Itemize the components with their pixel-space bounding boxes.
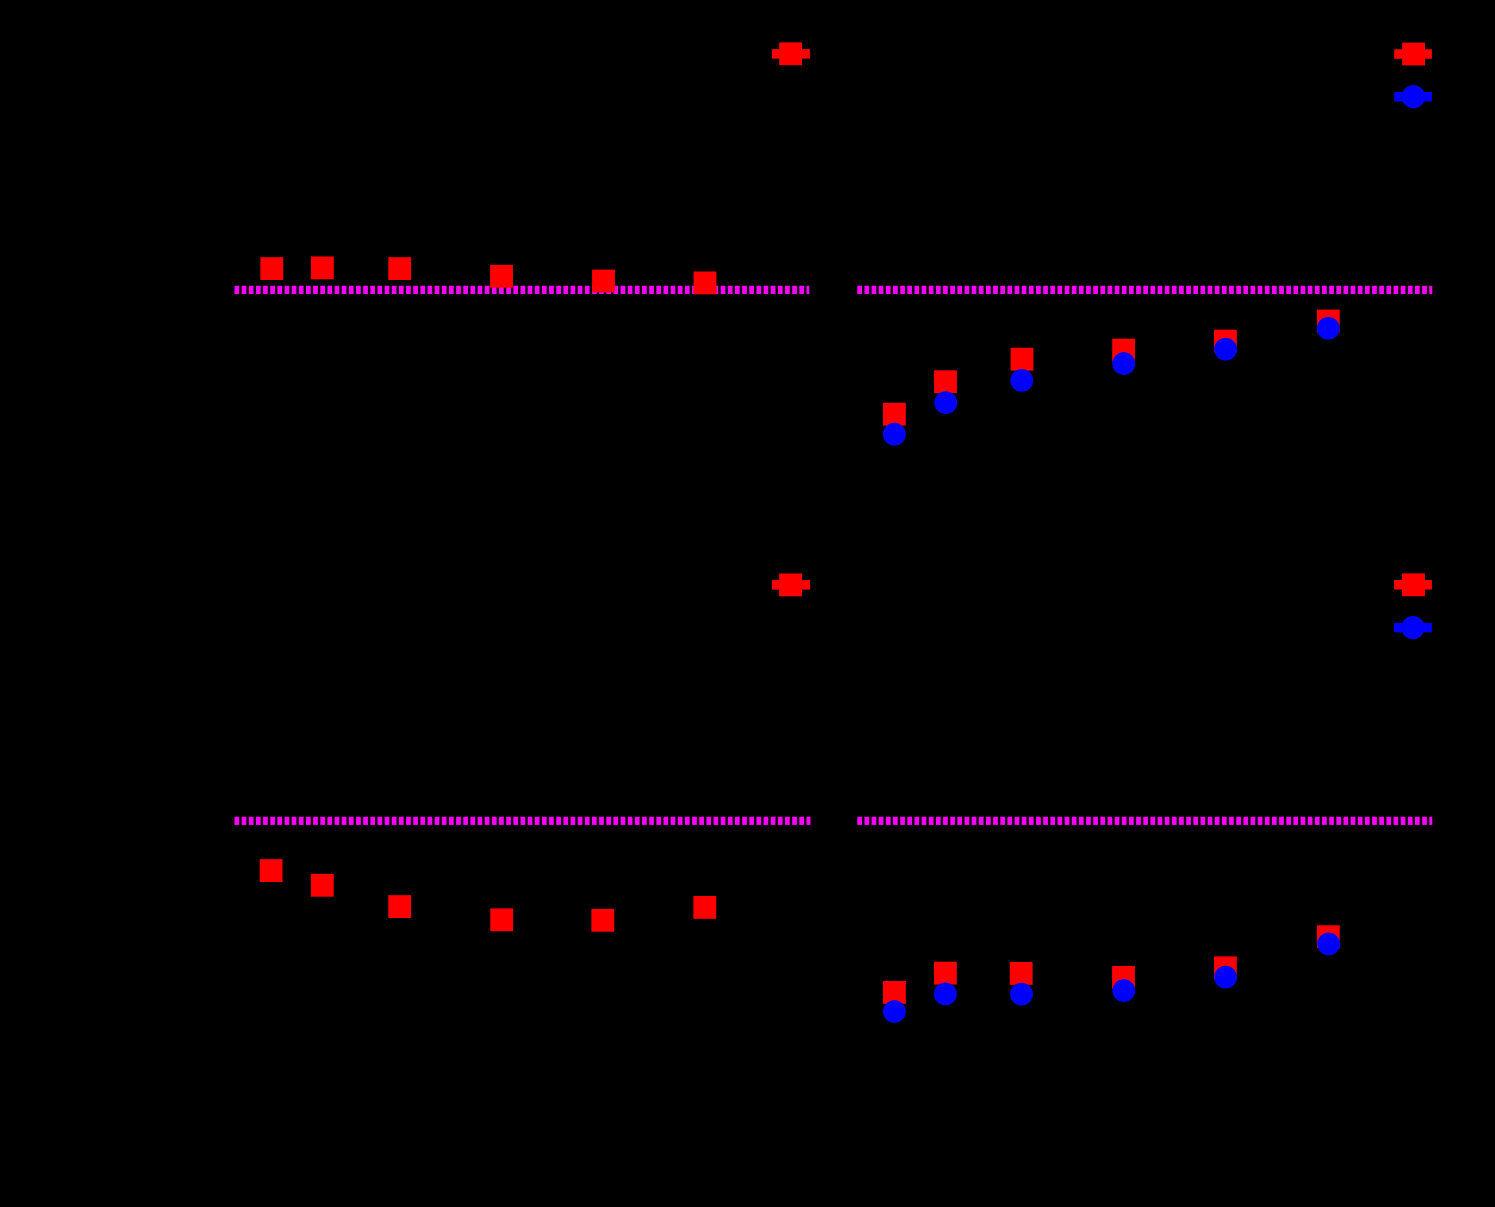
blue circle series bottom-right (883, 933, 1340, 1023)
red square series bottom-right (883, 925, 1340, 1004)
red square series top-right (883, 310, 1340, 426)
legend marker blue top-right (1394, 85, 1432, 108)
reference line top-left (235, 286, 810, 294)
legend marker blue bottom-right (1394, 616, 1432, 639)
reference line bottom-left (235, 817, 811, 825)
reference line bottom-right (857, 817, 1432, 825)
legend marker red top-right (1394, 43, 1432, 66)
legend marker red bottom-right (1394, 573, 1432, 596)
reference line top-right (857, 286, 1432, 294)
blue circle series top-right (883, 317, 1340, 446)
red square series top-left (260, 257, 716, 295)
legend marker red top-left (772, 42, 810, 65)
legend marker red bottom-left (772, 574, 810, 597)
red square series bottom-left (260, 859, 717, 932)
